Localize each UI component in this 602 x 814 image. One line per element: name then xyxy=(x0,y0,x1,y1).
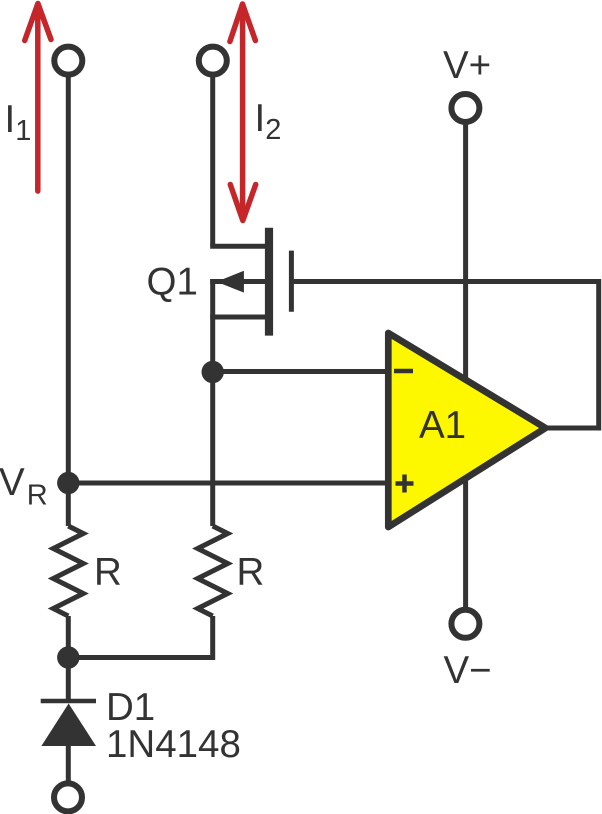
svg-text:V+: V+ xyxy=(443,44,491,87)
svg-text:I1: I1 xyxy=(5,98,32,147)
svg-text:R: R xyxy=(94,551,122,594)
svg-text:VR: VR xyxy=(0,461,48,511)
svg-text:R: R xyxy=(237,551,265,594)
svg-text:A1: A1 xyxy=(419,404,466,447)
svg-text:Q1: Q1 xyxy=(147,261,198,304)
svg-text:I2: I2 xyxy=(255,97,282,146)
svg-text:V−: V− xyxy=(444,649,492,692)
svg-text:1N4148: 1N4148 xyxy=(106,723,241,766)
